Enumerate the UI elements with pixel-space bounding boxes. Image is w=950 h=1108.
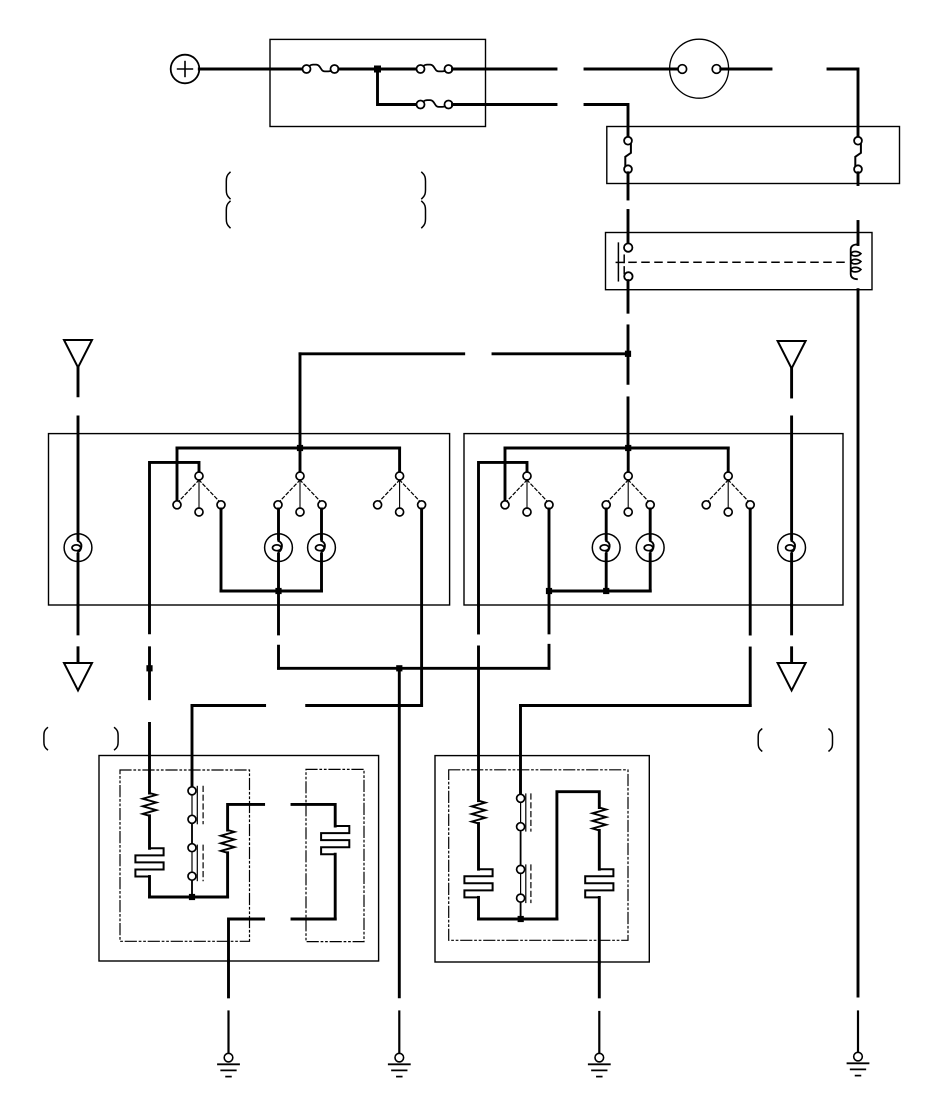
switch S4 xyxy=(501,472,553,516)
curly bracket upper left b xyxy=(226,201,230,227)
wire to ignition switch xyxy=(585,68,678,71)
wire S1 common circuit below box xyxy=(148,605,151,633)
wire to connector box left xyxy=(585,105,628,138)
wire stub below arrow xyxy=(77,367,80,395)
wire S6 output horizontal xyxy=(521,704,751,707)
wire link into enclosure B xyxy=(292,804,335,826)
left unit dash-dot enclosure B xyxy=(306,769,364,941)
wire S4 output resume xyxy=(548,645,551,668)
switch S2 xyxy=(274,472,326,516)
wire relay switch down xyxy=(627,281,630,313)
wire R2 bottom to bus xyxy=(226,853,229,897)
resistor R4 xyxy=(593,808,607,831)
right lamp unit box xyxy=(435,756,649,962)
wire B4 output to ground pin xyxy=(598,897,601,962)
left switch box xyxy=(49,434,450,605)
wire S4 right contact down xyxy=(548,509,551,591)
wire through lamp L4 xyxy=(605,509,608,591)
wire relay switch down segment2 xyxy=(627,326,630,383)
wire lamp L6 output below box xyxy=(790,605,793,634)
curly bracket upper left a xyxy=(226,172,230,198)
parenthesis lower left a xyxy=(44,728,48,750)
bus wire in left box xyxy=(177,447,400,450)
wire stub above lower right arrow xyxy=(790,648,793,663)
bottom bus of left box xyxy=(221,590,322,593)
wire down to connector chain CC2 xyxy=(519,706,522,795)
wire through lamp L2 xyxy=(277,509,280,634)
inline connector C2 xyxy=(854,137,862,173)
wire to left unit ground pin xyxy=(229,919,264,961)
bulb element B2 xyxy=(321,826,349,854)
junction node lamp L4 output xyxy=(603,588,609,594)
wire connector C2 down xyxy=(857,173,860,185)
switch S3 xyxy=(374,472,426,516)
wire through lamp L3 xyxy=(320,509,323,591)
wire down to connector chain CC1 xyxy=(191,706,194,787)
wire stub below right arrow xyxy=(790,368,793,397)
bus drop to S6 common xyxy=(727,448,730,472)
off-page arrow lower left xyxy=(64,663,92,690)
right unit dash-dot enclosure xyxy=(449,770,628,941)
parenthesis lower left b xyxy=(115,728,119,750)
junction node under chain CC2 xyxy=(518,916,524,922)
wire relay coil down to ground line xyxy=(857,290,860,996)
left unit dash-dot enclosure A xyxy=(120,770,250,941)
junction node lamp L2 output xyxy=(275,588,281,594)
wire connector C1 down resume xyxy=(627,211,630,244)
wire stub above lower left arrow xyxy=(77,648,80,663)
relay coil xyxy=(851,244,861,279)
relay box xyxy=(606,233,873,290)
wire into left box through lamp L1 xyxy=(77,417,80,605)
wire into right box through lamp L6 xyxy=(790,417,793,605)
ground wire G3 resume xyxy=(598,1012,600,1053)
wire R2 top link xyxy=(228,804,264,830)
wire B1 output xyxy=(148,877,151,898)
wire feed down into left switch box xyxy=(299,354,302,448)
ground wire G2 resume xyxy=(398,1012,400,1054)
bulb element B3 xyxy=(464,869,492,897)
wire R3 to bulb B3 xyxy=(477,824,480,870)
curly bracket upper right a xyxy=(422,172,426,198)
lamp L6 xyxy=(778,534,806,562)
wire S1 common circuit segment3 xyxy=(148,724,151,794)
bulb element B1 xyxy=(135,848,163,876)
resistor R1 xyxy=(143,793,157,816)
lamp L4 xyxy=(592,534,620,562)
wire fuse F2 to box edge xyxy=(453,68,557,71)
wire right L-feed resume into resistor R3 xyxy=(477,647,480,801)
battery positive terminal xyxy=(171,55,200,84)
wire branch down from junction xyxy=(378,69,417,105)
wire right L-feed below box xyxy=(477,605,480,633)
left lamp unit box xyxy=(99,756,379,962)
wire to connector box right xyxy=(828,69,858,137)
ground G1 xyxy=(218,1053,239,1076)
wire S3 output horizontal left part xyxy=(192,704,265,707)
junction node under chain CC1 xyxy=(189,894,195,900)
bus wire in left unit xyxy=(150,896,228,899)
wire battery to fuse box xyxy=(199,68,302,71)
ground wire G4 resume xyxy=(857,1012,859,1053)
wire R1 to bulb B1 xyxy=(148,816,151,849)
ground wire G3 xyxy=(598,962,601,997)
junction node on left bus xyxy=(297,445,303,451)
lamp L5 xyxy=(636,534,664,562)
junction node on right bus xyxy=(625,445,631,451)
bus drop to S3 common xyxy=(398,448,401,472)
wire R4 to bulb B4 xyxy=(598,830,601,869)
wire horizontal feed left segment xyxy=(300,352,464,355)
fuse F1 xyxy=(303,65,339,73)
junction node in fuse box xyxy=(374,66,381,73)
wire S6 output resume xyxy=(749,648,752,706)
wire S6 right contact down xyxy=(749,509,752,634)
parenthesis lower right a xyxy=(758,729,762,751)
wire S4 output below box xyxy=(548,591,551,633)
lamp L2 xyxy=(265,534,293,562)
L-wire to S4 common xyxy=(479,462,528,605)
ground G3 xyxy=(589,1053,610,1076)
wire connector C2 down resume xyxy=(857,222,860,245)
ground G2 xyxy=(389,1053,410,1076)
fuse box xyxy=(270,39,486,126)
wire S3 right contact down xyxy=(420,509,423,706)
wire link to resistor R4 xyxy=(557,792,599,919)
wire S1 common circuit segment2 xyxy=(148,648,151,699)
bulb element B4 xyxy=(585,869,613,897)
fuse F3 xyxy=(417,100,453,108)
switch S5 xyxy=(602,472,654,516)
ground G4 xyxy=(848,1052,869,1075)
off-page arrow upper right xyxy=(778,341,806,368)
wire fuse F3 out xyxy=(453,103,557,106)
wire through lamp L5 xyxy=(649,509,652,591)
splice node on S1 common circuit xyxy=(146,665,152,671)
relay switch contacts xyxy=(616,243,632,281)
ground stem wire center xyxy=(398,668,401,997)
wire S1 right contact down xyxy=(220,509,223,591)
parenthesis lower right b xyxy=(829,729,833,751)
fuse F2 xyxy=(417,65,453,73)
switch S6 xyxy=(702,472,754,516)
junction node at relay output xyxy=(625,351,631,357)
resistor R2 xyxy=(221,830,235,853)
bus wire in right unit xyxy=(479,918,557,921)
wire fuse F1 to junction xyxy=(339,68,417,71)
wire ignition switch output xyxy=(721,68,771,71)
bus wire in right box xyxy=(505,447,728,450)
ground wire G1 resume xyxy=(227,1012,229,1054)
connector chain CC2 xyxy=(517,794,531,919)
wire S3 output horizontal right part xyxy=(307,704,422,707)
junction node S4 output xyxy=(546,588,552,594)
lamp L1 xyxy=(64,534,92,562)
bus drop to S1 left contact xyxy=(176,448,179,501)
curly bracket upper right b xyxy=(422,201,426,227)
wire B3 output xyxy=(477,897,480,919)
junction node to ground stem xyxy=(396,665,402,671)
ground wire G1 xyxy=(227,961,230,997)
connector box xyxy=(607,127,900,184)
resistor R3 xyxy=(472,801,486,824)
relay actuation dashed link xyxy=(629,261,848,263)
lamp L3 xyxy=(308,534,336,562)
wire horizontal feed right segment xyxy=(493,352,628,355)
off-page arrow lower right xyxy=(778,663,806,690)
wire B2 output down xyxy=(334,854,337,919)
wire lamp L1 circuit below box xyxy=(77,605,80,634)
wire B2 output horizontal xyxy=(292,918,335,921)
connector chain CC1 xyxy=(188,786,203,897)
inline connector C1 xyxy=(624,137,632,173)
wire connector C1 down xyxy=(627,173,630,199)
switch S1 xyxy=(173,472,225,516)
wire feed to S5 common xyxy=(627,448,630,472)
right switch box xyxy=(464,434,843,605)
bottom bus of right box xyxy=(549,590,650,593)
wire cross link left to right xyxy=(279,667,549,670)
wire lamp L2 output resume xyxy=(277,646,280,668)
off-page arrow upper left xyxy=(64,340,92,367)
bus drop to S4 left contact xyxy=(504,448,507,501)
wire feed to S2 common xyxy=(299,448,302,472)
ignition switch xyxy=(670,39,729,98)
wire relay switch down segment3 xyxy=(627,398,630,448)
L-wire to S1 common xyxy=(150,462,200,605)
